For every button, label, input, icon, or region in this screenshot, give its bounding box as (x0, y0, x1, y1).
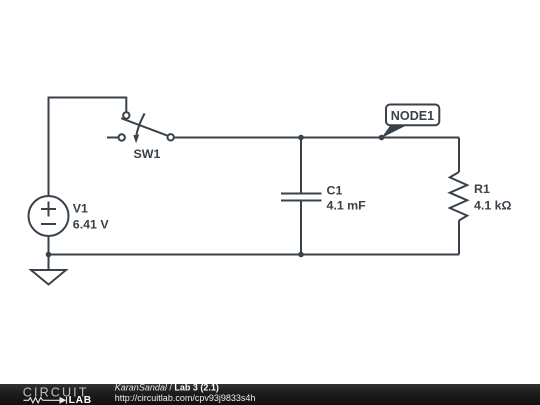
node junction at capacitor top (298, 135, 304, 141)
svg-text:V1: V1 (73, 202, 88, 216)
capacitor C1 (281, 138, 322, 255)
svg-text:NODE1: NODE1 (391, 109, 434, 123)
node junction at V1 bottom (46, 252, 52, 258)
svg-text:6.41 V: 6.41 V (73, 218, 110, 232)
svg-text:SW1: SW1 (134, 147, 161, 161)
resistor R1 (450, 172, 467, 221)
switch SW1 (107, 112, 174, 143)
voltage source V1 (29, 196, 69, 236)
wire right vertical bottom (458, 221, 460, 255)
wire bottom rail (49, 254, 460, 256)
node junction NODE1 tap (379, 135, 385, 141)
svg-text:http://circuitlab.com/cpv93j98: http://circuitlab.com/cpv93j9833s4h (115, 393, 256, 403)
svg-text:LAB: LAB (69, 395, 92, 405)
wire top-left from V1 to switch (49, 98, 127, 197)
svg-text:4.1 mF: 4.1 mF (327, 199, 367, 213)
svg-text:KaranSandal / Lab 3 (2.1): KaranSandal / Lab 3 (2.1) (115, 383, 219, 393)
node junction at capacitor bottom (298, 252, 304, 258)
wire top rail switch to right corner (174, 137, 459, 139)
wire V1 bottom to node (48, 236, 50, 255)
footer bar (0, 384, 540, 405)
svg-text:C1: C1 (327, 184, 343, 198)
logo CIRCUIT LAB (23, 385, 92, 405)
node NODE1 callout (381, 105, 439, 139)
ground (31, 255, 66, 285)
svg-text:R1: R1 (474, 182, 490, 196)
svg-text:4.1 kΩ: 4.1 kΩ (474, 199, 512, 213)
wire right vertical top (458, 138, 460, 173)
